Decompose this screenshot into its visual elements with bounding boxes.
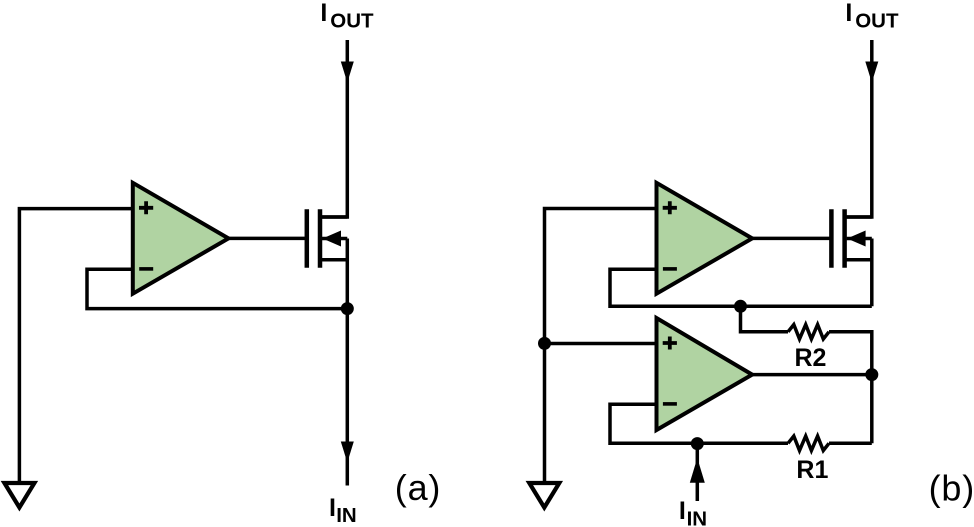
current arrow I_IN (b) xyxy=(690,458,705,483)
op-amp A1 xyxy=(133,183,229,294)
svg-text:I: I xyxy=(320,0,327,27)
wire: + input of A3 xyxy=(545,342,659,346)
current arrow I_IN (a) xyxy=(341,442,354,463)
node: A3 output junction xyxy=(865,368,878,381)
wire: + input to ground rail xyxy=(19,209,134,481)
label I_IN (b) xyxy=(679,497,707,527)
op-amp A2 xyxy=(657,183,753,294)
op-amp A3 xyxy=(657,318,753,430)
wire: I_OUT rail to drain xyxy=(322,40,347,217)
node: I_IN junction xyxy=(691,437,704,450)
svg-text:I: I xyxy=(329,494,336,522)
wire: R2 to right vertical xyxy=(829,332,872,444)
ground (a) xyxy=(4,483,34,508)
node: ground rail / + input junction xyxy=(538,337,551,350)
label I_OUT (b) xyxy=(845,0,899,32)
wire: I_IN lead xyxy=(696,444,700,501)
wire: A3 feedback from - input along y444 xyxy=(610,404,788,443)
current arrow I_OUT (b) xyxy=(865,62,878,83)
ground (b) xyxy=(529,483,559,508)
svg-text:(b): (b) xyxy=(929,468,974,509)
wire: A3 output to right vertical xyxy=(751,373,872,377)
svg-text:I: I xyxy=(679,497,686,525)
wire: branch down to R2 lead xyxy=(741,306,789,332)
wire: A2 output to gate xyxy=(751,237,830,241)
transistor M1 (a) xyxy=(307,209,348,267)
node: R2 branch junction xyxy=(734,300,747,313)
resistor R2 xyxy=(788,325,829,339)
node: feedback junction (a) xyxy=(341,302,354,315)
transistor M2 (b) xyxy=(831,209,871,267)
wire: M2 source rail down to y306 xyxy=(870,239,874,307)
svg-text:R1: R1 xyxy=(796,456,828,484)
current arrow I_OUT (a) xyxy=(341,62,354,83)
svg-text:OUT: OUT xyxy=(330,9,374,32)
wire: + input of A2 to ground rail xyxy=(545,209,659,482)
wire: R1 to right vertical corner xyxy=(829,442,872,446)
wire: source rail down to I_IN xyxy=(346,239,350,486)
wire: op-amp output to gate xyxy=(227,237,305,241)
resistor R1 xyxy=(788,436,829,450)
svg-text:IN: IN xyxy=(687,508,708,527)
svg-text:OUT: OUT xyxy=(855,9,899,32)
svg-text:(a): (a) xyxy=(395,467,441,508)
wire: A2 feedback from - input along y306 xyxy=(610,269,872,306)
wire: I_OUT rail to drain xyxy=(847,40,872,217)
label I_IN (a) xyxy=(329,494,357,527)
wire: feedback from - input to node xyxy=(87,269,345,308)
svg-text:IN: IN xyxy=(336,504,357,527)
label I_OUT (a) xyxy=(320,0,374,32)
svg-text:I: I xyxy=(845,0,852,27)
svg-text:R2: R2 xyxy=(795,344,827,372)
